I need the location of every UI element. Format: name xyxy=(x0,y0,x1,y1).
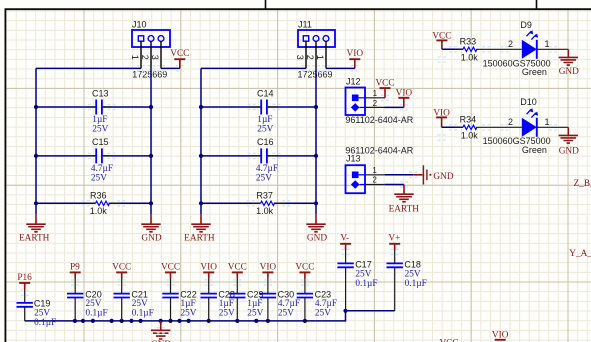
svg-text:V+: V+ xyxy=(388,234,400,244)
wire J12 pin2 to VIO xyxy=(385,106,404,108)
svg-text:1.0k: 1.0k xyxy=(256,206,274,216)
svg-text:GND: GND xyxy=(433,172,453,182)
svg-text:25V: 25V xyxy=(181,308,197,318)
J11 pins 3,2,1 xyxy=(306,41,326,68)
wire J11 pin1 to VIO xyxy=(326,67,355,69)
capacitor C19 xyxy=(24,289,26,303)
svg-text:25V: 25V xyxy=(91,173,107,183)
svg-text:1: 1 xyxy=(544,117,549,127)
wire R36 row xyxy=(36,202,151,204)
svg-text:1: 1 xyxy=(544,39,549,49)
ground GND (block 1) xyxy=(150,215,152,224)
ground EARTH (block 2) xyxy=(200,215,202,224)
svg-text:Y_A_1: Y_A_1 xyxy=(569,249,591,259)
svg-text:C13: C13 xyxy=(92,88,109,98)
svg-text:0.1µF: 0.1µF xyxy=(34,318,56,328)
ground GND (block 2) xyxy=(315,215,317,224)
svg-text:J13: J13 xyxy=(346,153,361,163)
svg-text:1: 1 xyxy=(130,55,140,60)
wire R34 to D10 xyxy=(476,126,522,128)
capacitor C23 xyxy=(304,279,306,294)
svg-text:25V: 25V xyxy=(257,125,273,135)
wire J10 pin3 to VCC xyxy=(161,67,180,69)
svg-text:2: 2 xyxy=(508,117,513,127)
node C13 junctions xyxy=(34,105,38,109)
node bus junctions xyxy=(73,319,77,323)
svg-text:C23: C23 xyxy=(315,290,332,300)
wire D9 to GND xyxy=(537,48,569,50)
svg-text:2: 2 xyxy=(508,39,513,49)
svg-text:2: 2 xyxy=(372,176,377,185)
svg-text:0.1µF: 0.1µF xyxy=(355,279,377,289)
wire J13 pin2 to EARTH xyxy=(385,184,404,186)
J12 pin 2 xyxy=(360,106,366,108)
wire C14 row xyxy=(201,106,316,108)
wire bottom GND bus xyxy=(25,311,395,321)
svg-text:GND: GND xyxy=(559,67,579,77)
capacitor C21 xyxy=(121,279,123,294)
svg-text:VCC: VCC xyxy=(161,262,180,272)
svg-text:C17: C17 xyxy=(355,259,372,269)
svg-text:GND: GND xyxy=(307,234,327,244)
capacitor C29 xyxy=(236,279,238,294)
svg-text:1.0k: 1.0k xyxy=(461,131,479,141)
wire VCC to R33 xyxy=(442,48,463,50)
svg-text:2: 2 xyxy=(140,55,150,60)
svg-text:C14: C14 xyxy=(257,88,274,98)
svg-text:VIO: VIO xyxy=(260,262,277,272)
svg-text:Green: Green xyxy=(522,145,547,155)
wire left rail (EARTH net, block2) xyxy=(200,68,202,214)
ground GND (D10) xyxy=(567,127,569,135)
svg-text:P9: P9 xyxy=(70,262,80,272)
wire R33 to D9 xyxy=(476,48,522,50)
svg-text:VCC: VCC xyxy=(228,262,247,272)
wire R37 row xyxy=(201,202,316,204)
wire left rail (EARTH net) xyxy=(35,68,37,214)
svg-text:J11: J11 xyxy=(298,20,312,30)
J13 pin 1 xyxy=(359,174,366,176)
compile markers xyxy=(83,104,91,109)
svg-text:VIO: VIO xyxy=(200,262,217,272)
node C16 junctions xyxy=(199,154,203,158)
svg-text:961102-6404-AR: 961102-6404-AR xyxy=(345,115,413,125)
svg-text:VIO: VIO xyxy=(492,330,509,340)
svg-text:C15: C15 xyxy=(92,137,109,147)
svg-text:C30: C30 xyxy=(278,290,295,300)
svg-text:3: 3 xyxy=(295,55,305,60)
svg-text:V-: V- xyxy=(340,234,349,244)
svg-text:VCC: VCC xyxy=(295,262,314,272)
svg-text:EARTH: EARTH xyxy=(184,234,215,244)
svg-text:R33: R33 xyxy=(460,37,477,47)
svg-text:GND: GND xyxy=(559,147,579,157)
svg-text:VIO: VIO xyxy=(347,49,364,59)
wire J10 pin2 down (GND net) xyxy=(150,68,152,214)
svg-text:1: 1 xyxy=(373,89,378,98)
svg-text:J12: J12 xyxy=(346,77,361,87)
svg-text:25V: 25V xyxy=(219,308,235,318)
ground EARTH (J13) xyxy=(403,185,405,195)
svg-text:EARTH: EARTH xyxy=(19,234,50,244)
svg-text:0.1µF: 0.1µF xyxy=(86,308,108,318)
svg-text:VCC: VCC xyxy=(170,49,189,59)
svg-text:2: 2 xyxy=(305,55,315,60)
node R37 junctions xyxy=(199,201,203,205)
J10 pins 1,2,3 xyxy=(141,41,161,68)
capacitor C20 xyxy=(74,279,76,294)
svg-text:25V: 25V xyxy=(34,308,50,318)
wire C16 row xyxy=(201,155,316,157)
svg-text:VCC: VCC xyxy=(375,79,394,89)
node C14 junctions xyxy=(199,105,203,109)
svg-text:1: 1 xyxy=(315,55,325,60)
capacitor C18 xyxy=(394,250,396,263)
svg-text:Green: Green xyxy=(522,67,547,77)
svg-text:R34: R34 xyxy=(460,115,477,125)
svg-text:C19: C19 xyxy=(34,299,51,309)
svg-text:VCC: VCC xyxy=(112,262,131,272)
wire J11 pin2 down (GND net, block2) xyxy=(315,68,317,214)
svg-text:25V: 25V xyxy=(92,125,108,135)
svg-text:1: 1 xyxy=(372,166,377,175)
capacitor C22 xyxy=(170,279,172,294)
wire C15 row xyxy=(36,155,151,157)
wire J13 pin1 to GND port xyxy=(385,174,414,176)
J13 pin 2 xyxy=(360,184,366,186)
svg-text:25V: 25V xyxy=(247,308,263,318)
J12 pin 1 xyxy=(359,97,366,99)
capacitor C28 xyxy=(208,279,210,294)
ground GND (D9) xyxy=(567,49,569,57)
ground EARTH (block 1) xyxy=(35,215,37,224)
node C15 junctions xyxy=(34,154,38,158)
svg-text:D10: D10 xyxy=(520,97,537,107)
wire D10 to GND xyxy=(537,126,569,128)
svg-text:C16: C16 xyxy=(257,137,274,147)
svg-text:25V: 25V xyxy=(315,308,331,318)
svg-text:GND: GND xyxy=(141,234,161,244)
svg-text:25V: 25V xyxy=(278,308,294,318)
svg-text:Z_B_0: Z_B_0 xyxy=(574,179,591,189)
svg-text:C18: C18 xyxy=(404,259,421,269)
svg-text:0.1µF: 0.1µF xyxy=(132,308,154,318)
svg-text:EARTH: EARTH xyxy=(389,204,420,214)
svg-text:C22: C22 xyxy=(180,290,197,300)
wire C13 row xyxy=(36,106,151,108)
wire VIO to R34 xyxy=(442,126,463,128)
svg-text:1.0k: 1.0k xyxy=(90,206,108,216)
node R36 junctions xyxy=(34,201,38,205)
svg-text:1.0k: 1.0k xyxy=(461,52,479,62)
capacitor C17 xyxy=(345,250,347,263)
wire J10 pin1 to left rail xyxy=(36,67,141,69)
svg-text:P16: P16 xyxy=(17,273,32,283)
capacitor C30 xyxy=(267,279,269,294)
svg-text:R37: R37 xyxy=(256,190,273,200)
svg-text:C21: C21 xyxy=(131,290,148,300)
svg-text:2: 2 xyxy=(373,99,378,108)
ground GND (bus) xyxy=(160,321,162,330)
wire J11 pin3 to left rail xyxy=(201,67,306,69)
svg-text:3: 3 xyxy=(150,55,160,60)
svg-text:D9: D9 xyxy=(520,20,532,30)
power port GND (bar style) xyxy=(413,174,422,176)
svg-text:0.1µF: 0.1µF xyxy=(405,279,427,289)
svg-text:J10: J10 xyxy=(132,20,147,30)
svg-text:R36: R36 xyxy=(90,190,107,200)
svg-text:C20: C20 xyxy=(85,290,102,300)
svg-text:25V: 25V xyxy=(256,173,272,183)
